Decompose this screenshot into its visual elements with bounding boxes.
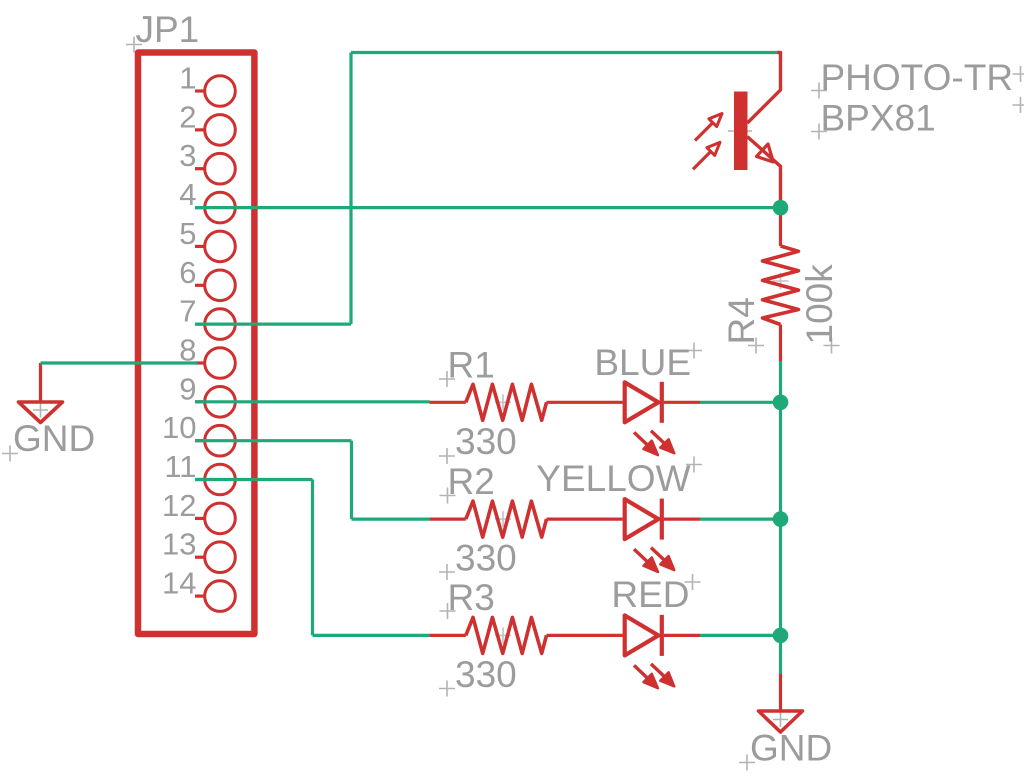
origin cross JP1	[126, 37, 142, 53]
R4 bottom stub	[779, 325, 782, 362]
wire net pin11 horizontal	[195, 478, 313, 481]
phototransistor base bar	[734, 92, 748, 171]
pin 5	[205, 231, 236, 262]
pin 13	[205, 542, 236, 573]
svg-text:R2: R2	[448, 461, 495, 502]
origin cross 330 (R1)	[439, 448, 455, 464]
LED D2 light arrow 1	[634, 549, 648, 562]
pin 7	[205, 309, 236, 340]
origin cross 330 (R2)	[439, 564, 455, 580]
svg-text:3: 3	[179, 138, 196, 173]
origin cross phototransistor part	[728, 120, 752, 142]
phototransistor emitter arrow	[757, 144, 774, 162]
svg-text:7: 7	[179, 294, 196, 329]
ground symbol left triangle	[19, 402, 63, 423]
wire LED D1 to bus	[700, 401, 781, 404]
R3 stubs	[430, 634, 466, 637]
pin 10	[205, 425, 236, 456]
wire net pin11 to R3	[313, 634, 430, 637]
svg-text:100k: 100k	[799, 264, 840, 345]
LED D1 right stub	[664, 401, 700, 404]
svg-text:4: 4	[179, 177, 196, 212]
LED D2 cathode bar	[660, 499, 664, 540]
svg-text:R4: R4	[721, 297, 762, 344]
origin cross R2 text	[440, 488, 456, 504]
origin cross PHOTO-TR text	[811, 83, 827, 99]
LED D3 right stub	[664, 634, 700, 637]
phototransistor collector	[747, 53, 780, 124]
svg-text:5: 5	[179, 216, 196, 251]
svg-text:BPX81: BPX81	[821, 98, 936, 139]
pin 3	[205, 153, 236, 184]
svg-text:14: 14	[162, 566, 196, 601]
pin 11	[205, 464, 236, 495]
resistor R4	[763, 246, 799, 325]
origin cross GND left text	[2, 446, 18, 462]
wire LED D3 to bus	[700, 634, 781, 637]
svg-text:6: 6	[179, 255, 196, 290]
pin 9	[205, 387, 236, 418]
svg-text:PHOTO-TR: PHOTO-TR	[821, 57, 1014, 98]
LED D1 light arrow 2	[651, 431, 665, 444]
svg-text:BLUE: BLUE	[594, 342, 691, 383]
origin cross R3 text	[440, 603, 456, 619]
ground symbol left stub	[39, 363, 42, 402]
origin cross RED	[685, 574, 701, 590]
resistor R2	[466, 501, 547, 537]
wire net pin10 horizontal	[195, 439, 352, 442]
junction node blue row	[773, 395, 789, 411]
LED D3 triangle	[625, 615, 659, 655]
JP1 pin circles and stubs	[195, 76, 235, 612]
LED D3 light arrow 1	[634, 665, 648, 678]
LED D3 cathode bar	[660, 615, 664, 656]
pin 1	[205, 76, 236, 107]
LED D2 right stub	[664, 517, 700, 520]
junction node yellow row	[773, 511, 789, 527]
svg-text:12: 12	[162, 488, 196, 523]
wire net top horizontal	[351, 51, 778, 54]
junction node red row	[773, 628, 789, 644]
pin 8	[205, 348, 236, 379]
LED D1 cathode bar	[660, 382, 664, 423]
origin cross BLUE	[686, 343, 702, 359]
wire net pin11 vertical	[311, 480, 314, 636]
svg-text:13: 13	[162, 527, 196, 562]
origin cross right edge upper	[1013, 66, 1024, 82]
origin cross YELLOW	[686, 457, 702, 473]
wire net pin9 to R1	[195, 400, 430, 403]
pin 2	[205, 115, 236, 146]
pin 6	[205, 270, 236, 301]
phototransistor light arrow 2	[693, 152, 710, 169]
svg-text:YELLOW: YELLOW	[536, 458, 690, 499]
wire LED D2 to bus	[700, 517, 781, 520]
junction node pin4/R4	[773, 200, 789, 216]
origin cross R3 part	[495, 627, 511, 643]
wire net pin10 vertical	[350, 441, 353, 519]
LED D2 light arrow 2	[651, 548, 665, 561]
phototransistor light arrow 1	[695, 124, 712, 141]
ground symbol right triangle	[759, 711, 803, 732]
origin cross right edge lower	[1013, 97, 1024, 113]
origin cross 100k text	[824, 338, 840, 354]
origin cross R1 text	[439, 371, 455, 387]
svg-text:R3: R3	[448, 577, 495, 618]
LED D1 triangle	[625, 382, 659, 422]
R4 top stub	[779, 208, 782, 246]
R1 stubs	[430, 401, 466, 404]
wire net pin7 vertical	[349, 53, 352, 325]
svg-text:330: 330	[455, 538, 517, 579]
resistor R1	[466, 384, 547, 420]
svg-text:330: 330	[455, 421, 517, 462]
wire net pin7 horizontal	[195, 323, 351, 326]
pin 12	[205, 503, 236, 534]
origin cross R4 part	[773, 273, 789, 289]
svg-text:10: 10	[162, 410, 196, 445]
svg-text:GND: GND	[750, 728, 832, 769]
pin 4	[205, 192, 236, 223]
wire net pin10 to R2	[352, 517, 430, 520]
LED D2 triangle	[625, 499, 659, 539]
wire right bus vertical	[779, 361, 782, 674]
LED D1 light arrow 1	[634, 432, 648, 445]
wire net pin4 to junction	[195, 206, 781, 209]
R2 stubs	[430, 517, 466, 520]
svg-text:1: 1	[179, 61, 196, 96]
svg-text:2: 2	[179, 99, 196, 134]
origin cross 330 (R3)	[439, 681, 455, 697]
resistor R3	[466, 617, 547, 653]
svg-text:11: 11	[164, 449, 196, 484]
origin cross GND right text	[739, 755, 755, 771]
origin cross R2 part	[495, 511, 511, 527]
svg-text:RED: RED	[611, 574, 689, 615]
origin cross GND left symbol	[33, 403, 48, 418]
svg-text:GND: GND	[13, 418, 95, 459]
origin cross R4 text	[748, 338, 764, 354]
connector JP1 body	[138, 53, 254, 635]
pin number labels	[162, 61, 196, 601]
phototransistor emitter	[747, 137, 780, 208]
ground symbol right stub	[779, 674, 782, 711]
svg-text:JP1: JP1	[136, 9, 200, 50]
origin cross R1 part	[495, 394, 511, 410]
svg-text:330: 330	[455, 654, 517, 695]
origin cross BPX81 text	[811, 124, 827, 140]
origin cross GND right symbol	[773, 713, 788, 728]
pin 14	[205, 581, 236, 612]
svg-text:R1: R1	[448, 345, 495, 386]
wire net pin8 to GND	[41, 361, 198, 364]
svg-text:9: 9	[179, 371, 196, 406]
LED D3 light arrow 2	[651, 664, 665, 677]
